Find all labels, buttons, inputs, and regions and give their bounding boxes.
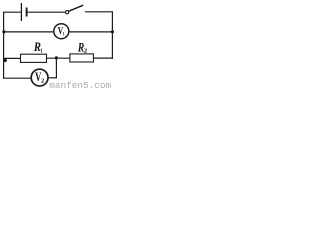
wire bottom left to V2: [4, 77, 32, 79]
node junction left R row: [3, 59, 6, 62]
wire V2 right: [48, 77, 57, 79]
switch S1 blade: [69, 5, 84, 11]
node junction right V1: [111, 30, 114, 33]
wire switch to top-right: [85, 11, 113, 13]
svg-text:manfen5.com: manfen5.com: [49, 80, 111, 90]
voltmeter V1: [54, 24, 69, 39]
battery B1 short plate: [26, 8, 28, 17]
resistor R2: [70, 54, 94, 62]
svg-text:1: 1: [40, 48, 43, 55]
voltmeter V2: [31, 69, 48, 86]
node junction A between R1 R2: [55, 56, 58, 59]
svg-text:2: 2: [41, 77, 44, 84]
wire R2 to right vertical: [93, 57, 113, 59]
wire right vertical: [111, 11, 113, 59]
wire V1 row left: [4, 31, 54, 33]
wire riser V2 to node A: [55, 58, 57, 79]
wire top-left horizontal: [3, 11, 21, 13]
svg-text:2: 2: [84, 48, 87, 55]
wire R row left: [4, 57, 21, 59]
node junction left V1: [2, 30, 5, 33]
wire V1 row right: [69, 31, 113, 33]
battery B1 long plate: [20, 3, 22, 21]
wire left vertical: [3, 12, 5, 79]
wire battery to switch: [28, 11, 66, 13]
wire R1 to R2: [47, 57, 70, 59]
switch S1 hinge: [66, 11, 69, 14]
resistor R1: [21, 54, 47, 62]
